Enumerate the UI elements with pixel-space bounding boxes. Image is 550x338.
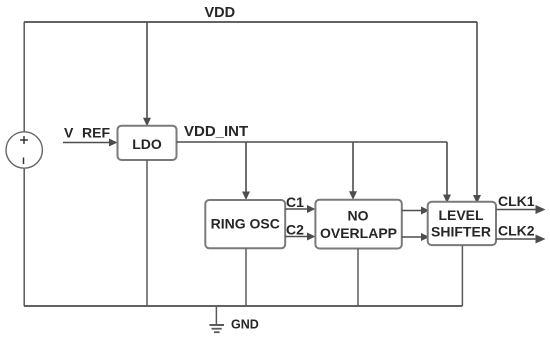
voltage source V1 [6, 132, 42, 168]
block LEVEL SHIFTER [428, 202, 496, 245]
wire VDD_INT rail [177, 141, 448, 143]
wire NO OVERLAPP bottom to ground rail [357, 249, 359, 307]
node V_REF label [64, 125, 110, 141]
wire VDD right vertical into LEVEL SHIFTER [473, 22, 481, 204]
svg-text:LEVEL: LEVEL [438, 207, 484, 223]
wire LDO bottom to ground rail [146, 160, 148, 306]
svg-text:OVERLAPP: OVERLAPP [320, 225, 397, 241]
wire VDD top rail [24, 21, 477, 23]
wire RING OSC bottom to ground rail [245, 248, 247, 306]
wire VDD_INT drop into LEVEL SHIFTER [443, 142, 451, 203]
node C2 label [286, 222, 304, 238]
wire LEVEL SHIFTER bottom to ground rail [461, 246, 463, 306]
node VDD label [205, 5, 236, 21]
block NO OVERLAPP [315, 200, 401, 249]
wire NO OVERLAPP out2 to LEVEL SHIFTER [402, 233, 430, 241]
svg-text:GND: GND [231, 318, 259, 332]
wire NO OVERLAPP out1 to LEVEL SHIFTER [402, 207, 430, 215]
block LDO [118, 126, 177, 160]
svg-text:VDD: VDD [205, 5, 236, 21]
wire CLK1 output [496, 205, 545, 214]
svg-text:CLK2: CLK2 [498, 222, 535, 238]
wire ground rail [24, 305, 462, 307]
node VDD_INT label [184, 123, 248, 140]
wire V_REF into LDO [63, 139, 118, 147]
wire CLK2 output [496, 235, 545, 244]
wire VDD_INT drop into RING OSC [242, 142, 250, 200]
svg-text:NO: NO [348, 208, 369, 224]
node GND label [231, 318, 259, 332]
node CLK1 label [498, 193, 535, 209]
wire left vertical from VDD rail to source [23, 22, 25, 132]
svg-text:LDO: LDO [132, 136, 162, 152]
svg-text:V: V [64, 125, 74, 141]
svg-text:C2: C2 [286, 222, 304, 238]
node CLK2 label [498, 222, 535, 238]
svg-text:RING OSC: RING OSC [211, 216, 280, 232]
svg-text:C1: C1 [286, 194, 304, 210]
svg-text:SHIFTER: SHIFTER [431, 224, 491, 240]
svg-text:VDD_INT: VDD_INT [184, 123, 248, 140]
svg-text:REF: REF [82, 125, 110, 141]
ground [210, 306, 225, 332]
wire C1 [285, 205, 315, 213]
wire C2 [285, 233, 315, 241]
wire VDD_INT drop into NO OVERLAPP [349, 142, 357, 200]
block RING OSC [205, 200, 285, 248]
wire VDD drop into LDO [143, 22, 151, 126]
wire source bottom to ground rail [23, 168, 25, 306]
svg-text:CLK1: CLK1 [498, 193, 535, 209]
node C1 label [286, 194, 304, 210]
